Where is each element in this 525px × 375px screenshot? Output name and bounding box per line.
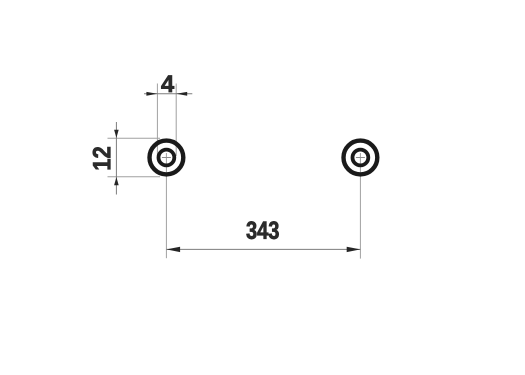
dimension line dim4 [144,93,192,95]
arrowhead dim4 right [176,92,187,96]
extension line dim4 right [175,84,177,157]
extension line dim12 bottom [108,176,161,178]
right hole outer circle [344,141,378,175]
extension line dim4 left [156,84,158,157]
extension line dim12 top [108,137,161,139]
dimension line dim343 [166,248,360,250]
left hole outer circle [150,141,184,175]
label dim4 value 4 [161,76,174,93]
centerline right hole [359,153,361,259]
arrowhead dim4 left [146,92,157,96]
centerline left hole [165,153,167,258]
left hole inner circle [159,150,175,166]
label dim343 value 343 [247,221,279,239]
arrowhead dim12 bottom [114,177,119,185]
arrowhead dim12 top [114,130,119,138]
cross mark right hole center [356,157,365,159]
arrowhead dim343 left [166,247,180,252]
label dim12 value 12 [93,147,111,169]
cross mark left hole center [162,157,171,159]
right hole inner circle [353,150,369,166]
arrowhead dim343 right [347,247,361,252]
dimension line dim12 [115,122,117,195]
